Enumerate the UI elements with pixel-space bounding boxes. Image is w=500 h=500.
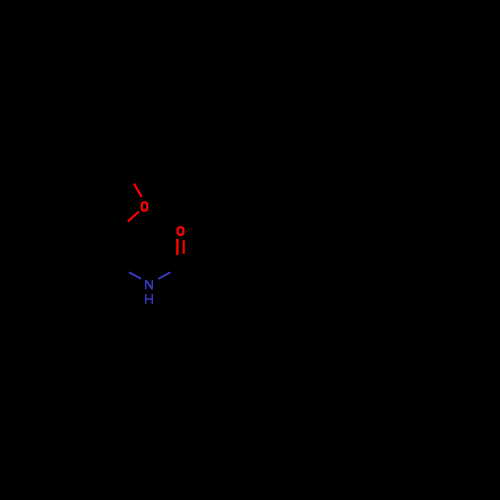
node O1: ring ether oxygen label xyxy=(142,202,148,210)
wire: bond C5-O1 (ring), O-colored half xyxy=(134,184,142,198)
node H: amide hydrogen label xyxy=(146,294,153,304)
node O2: carbonyl oxygen label xyxy=(178,227,184,234)
wire: bond N-C(=O), N-colored half xyxy=(158,272,170,279)
node N: amide nitrogen label xyxy=(146,280,153,289)
wire: C=O double bond, O-colored half (two parallel lines) xyxy=(176,239,178,255)
wire: bond C(H2)-N, N-colored half xyxy=(129,272,141,279)
wire: bond O1-C2 (ring), O-colored half xyxy=(128,212,139,222)
